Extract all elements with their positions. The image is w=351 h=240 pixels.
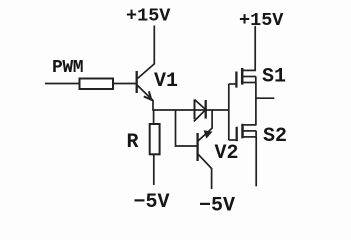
wire +15V to S1 drain [254,26,256,71]
resistor R body [150,124,160,154]
transistor V1 base bar [136,71,138,93]
wire resistor to V1 base [113,83,137,85]
mosfet S1 body-source tie [255,76,257,82]
svg-text:+15V: +15V [126,6,171,27]
wire V1 emitter down to gate node [152,100,154,111]
transistor V2 emitter (upper limb) [198,128,212,141]
svg-text:PWM: PWM [52,58,83,78]
svg-text:−5V: −5V [134,191,170,214]
transistor V2 base bar [196,133,198,161]
svg-text:V2: V2 [215,142,239,165]
mosfet S2 drain stub [242,124,256,126]
svg-text:+15V: +15V [239,10,284,31]
mosfet S1 body stub [242,76,256,78]
mosfet S2 gate bar [236,127,238,141]
diode triangle top edge [195,100,206,110]
wire node to resistor R top [153,110,155,125]
mosfet S2 source stub [242,136,256,138]
mosfet S1 gate bar [235,72,237,88]
wire PWM input [45,83,80,85]
wire S1 source to S2 drain [255,82,257,125]
wire V2 collector down to -5V [211,168,213,189]
resistor R-base (horizontal, unlabelled) [80,79,114,90]
mosfet S1 source stub [242,82,256,84]
transistor V2 emitter arrow [204,130,213,138]
transistor V1 collector [138,64,155,79]
mosfet S2 body-source tie [255,131,257,137]
mosfet S2 body stub [242,130,256,132]
wire gate node vertical bus [228,84,230,140]
transistor V2 collector (lower limb) [198,154,211,168]
wire gate drive horizontal [153,109,230,111]
svg-text:R: R [127,131,139,154]
svg-text:−5V: −5V [199,195,235,218]
svg-text:S2: S2 [263,125,287,148]
wire to S2 gate [229,139,237,141]
wire to S1 gate [229,83,236,85]
wire V2 base tap [176,110,198,147]
wire V2 emitter up to gate node [211,110,213,129]
mosfet S1 drain stub [242,69,256,71]
transistor V1 emitter [138,86,154,101]
wire S2 source down [255,137,257,186]
mosfet S2 channel bar [241,124,244,139]
diode anode triangle left bar [194,100,196,120]
wire output stub [256,97,274,99]
diode triangle bottom edge [194,110,206,122]
svg-text:V1: V1 [154,70,178,93]
wire R bottom to -5V [153,154,155,185]
wire +15V to V1 collector [153,26,155,65]
mosfet S1 channel bar [241,68,244,85]
diode cathode bar [205,100,207,119]
svg-text:S1: S1 [262,66,286,89]
transistor V1 emitter arrow [144,91,152,99]
